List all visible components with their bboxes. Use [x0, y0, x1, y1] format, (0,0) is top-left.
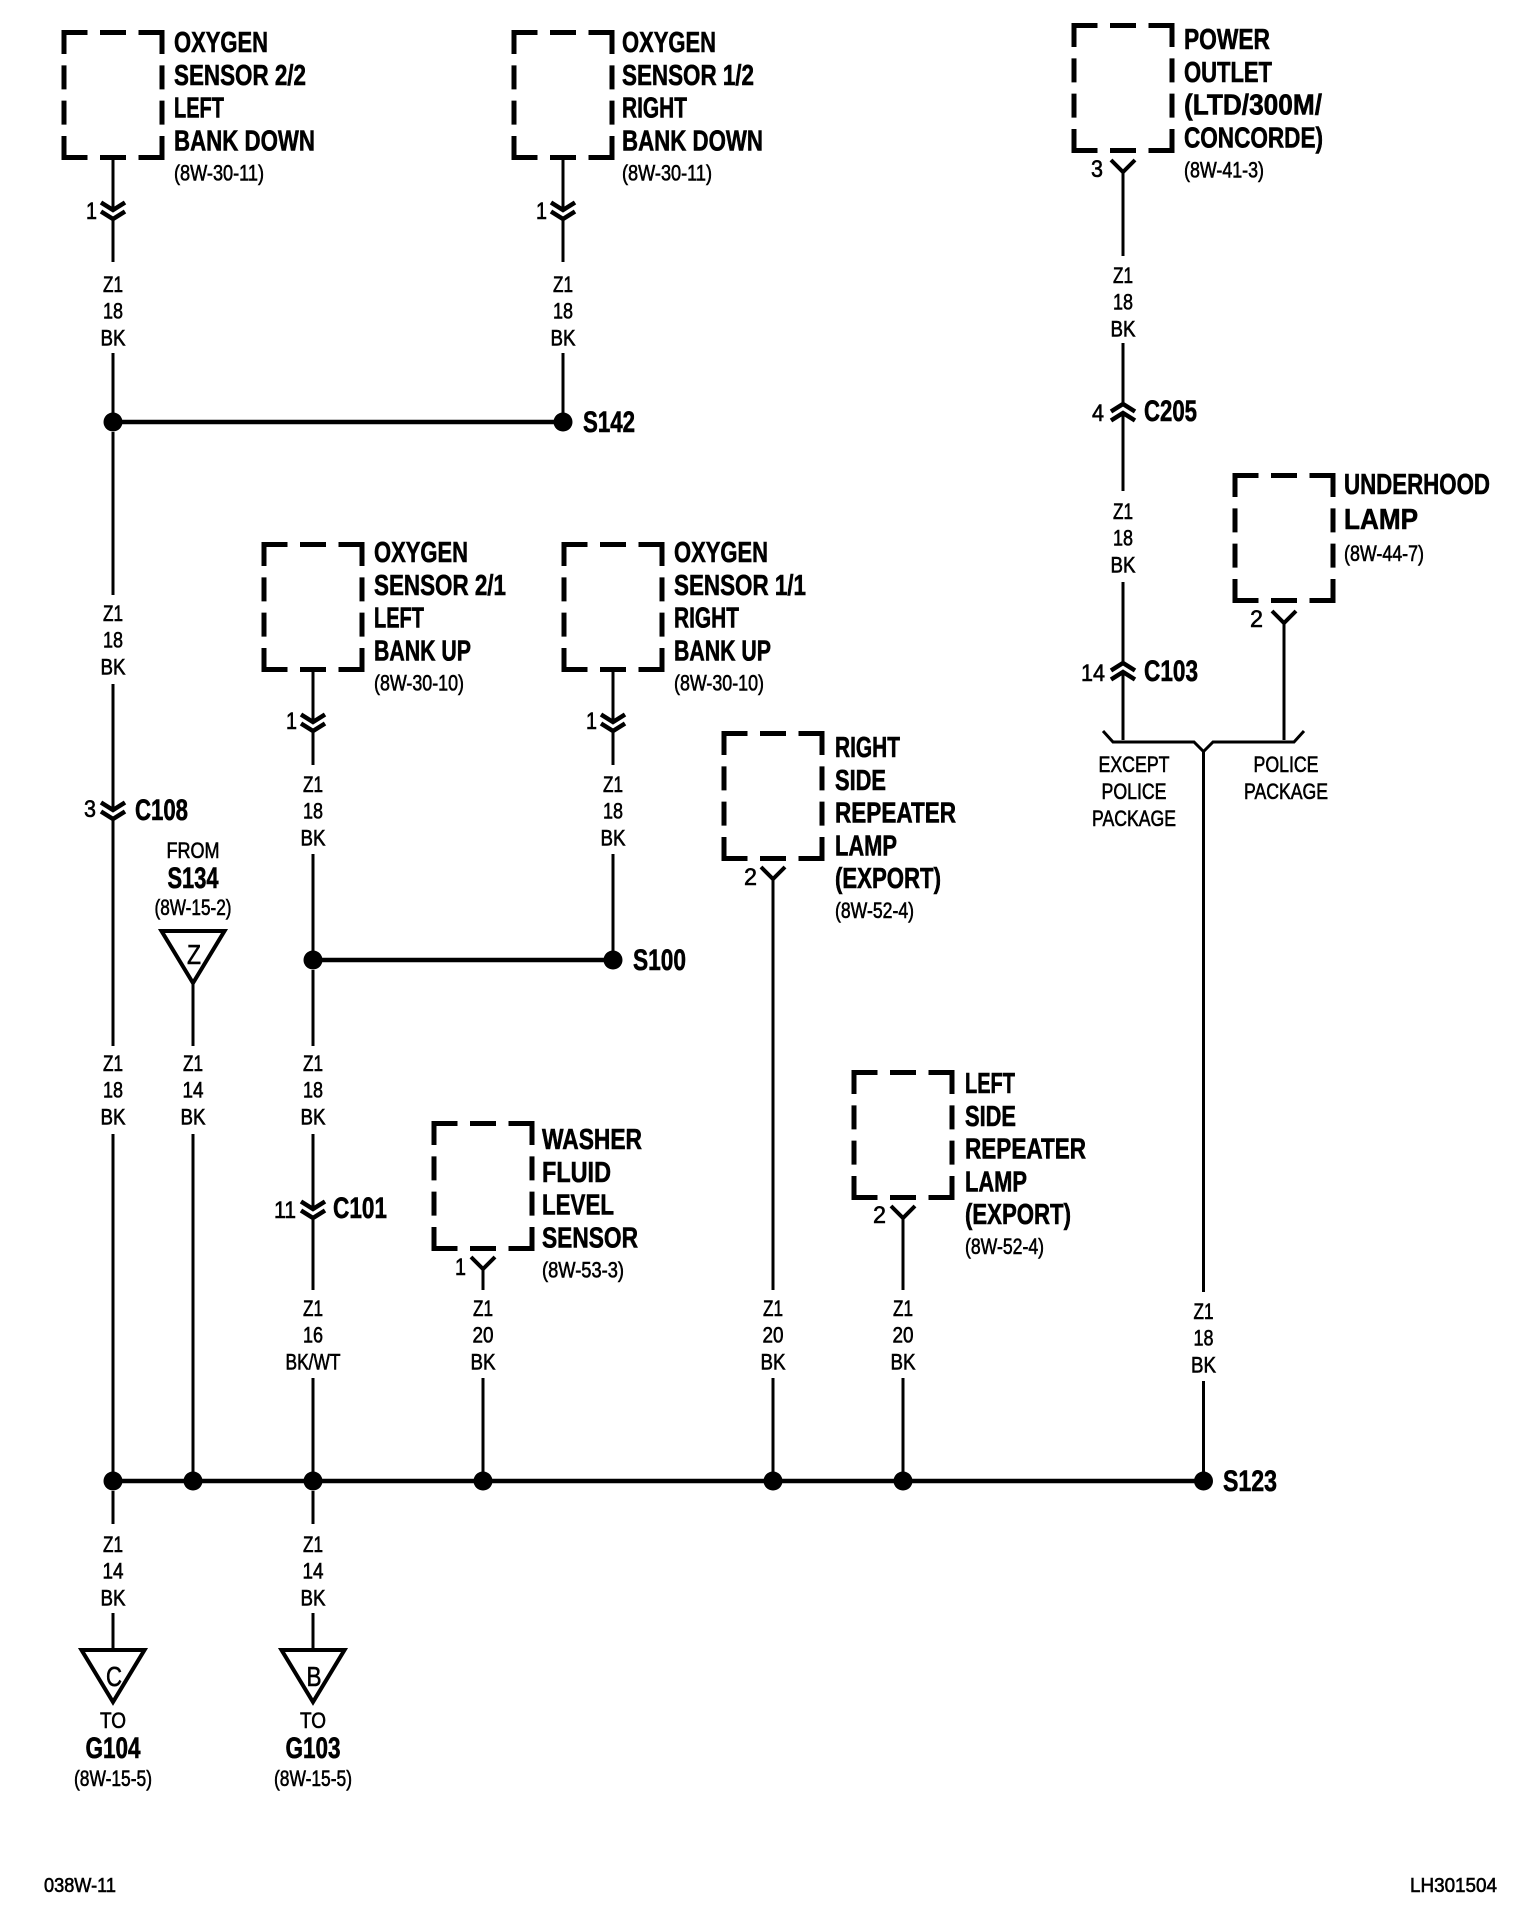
wire Z1 18 BK below C205: [1122, 413, 1125, 491]
svg-text:LH301504: LH301504: [1410, 1875, 1497, 1897]
wire Z1 18 BK below S100 (x=313): [312, 970, 315, 1046]
svg-text:PACKAGE: PACKAGE: [1244, 779, 1328, 804]
svg-text:20: 20: [473, 1323, 494, 1348]
pin V connector at right repeater lamp pin 2: [761, 867, 785, 879]
svg-text:Z1: Z1: [103, 1051, 123, 1076]
pin V connector at left repeater lamp pin 2: [891, 1206, 915, 1218]
svg-text:(8W-30-10): (8W-30-10): [674, 670, 764, 695]
wire Z1 18 BK segment below O2 1/1: [612, 731, 615, 765]
svg-text:(8W-30-11): (8W-30-11): [174, 160, 264, 185]
svg-text:OXYGEN: OXYGEN: [622, 27, 716, 59]
label FROM S134 (8W-15-2): [155, 838, 232, 920]
svg-text:B: B: [307, 1661, 322, 1692]
pin connector chevrons at O2 sensor 1/2 pin 1: [551, 203, 575, 220]
wire label Z1 14 BK (x=193): [181, 1051, 206, 1129]
svg-text:BANK DOWN: BANK DOWN: [174, 125, 315, 157]
svg-text:C103: C103: [1144, 655, 1198, 688]
off-page ground arrow C to G104: [82, 1650, 145, 1702]
svg-text:WASHER: WASHER: [542, 1124, 642, 1156]
svg-text:S100: S100: [633, 944, 686, 977]
svg-text:S123: S123: [1223, 1465, 1277, 1498]
svg-text:Z1: Z1: [183, 1051, 203, 1076]
svg-text:BANK UP: BANK UP: [374, 635, 471, 667]
pin connector chevrons at O2 sensor 2/1 pin 1: [301, 715, 325, 732]
svg-text:BK: BK: [891, 1349, 916, 1374]
svg-text:C: C: [106, 1661, 122, 1692]
label RIGHT SIDE REPEATER LAMP (EXPORT) (8W-52-4): [835, 732, 956, 923]
svg-text:S134: S134: [168, 862, 219, 895]
component POWER OUTLET dashed box: [1072, 23, 1175, 153]
off-page ground arrow B to G103: [282, 1650, 345, 1702]
wire Z1 18 BK from C103 to merge brace: [1122, 672, 1125, 740]
wire Z1 20 BK from washer sensor: [482, 1269, 485, 1290]
wire Z1 18 BK to connector C108: [112, 684, 115, 810]
svg-text:18: 18: [103, 1078, 123, 1103]
wire Z1 18 BK down to S123 dot: [1202, 1381, 1205, 1472]
svg-text:BK: BK: [301, 1585, 326, 1610]
label POWER OUTLET (LTD/300M/CONCORDE) (8W-41-3): [1184, 24, 1323, 182]
svg-text:18: 18: [1113, 290, 1133, 315]
svg-text:OUTLET: OUTLET: [1184, 57, 1272, 89]
svg-text:BK/WT: BK/WT: [286, 1349, 341, 1374]
label TO G104 (8W-15-5): [74, 1708, 152, 1791]
label OXYGEN SENSOR 1/2 RIGHT BANK DOWN (8W-30-11): [622, 27, 763, 185]
wire label Z1 20 BK (x=773): [761, 1296, 786, 1374]
svg-text:Z1: Z1: [1194, 1299, 1214, 1324]
merge brace joining except-police and police-package branches: [1103, 731, 1304, 752]
svg-text:BK: BK: [761, 1349, 786, 1374]
svg-text:BK: BK: [301, 1104, 326, 1129]
svg-text:SENSOR 2/2: SENSOR 2/2: [174, 60, 306, 92]
splice S100 junction dot: [604, 951, 623, 970]
svg-text:BK: BK: [301, 825, 326, 850]
svg-text:038W-11: 038W-11: [44, 1875, 116, 1897]
junction dot x=113 on S123: [104, 1472, 123, 1491]
svg-text:BK: BK: [471, 1349, 496, 1374]
svg-text:1: 1: [286, 708, 297, 735]
svg-text:18: 18: [303, 1078, 323, 1103]
svg-text:POLICE: POLICE: [1254, 752, 1319, 777]
wire Z1 18 BK to connector C103: [1122, 582, 1125, 663]
svg-text:14: 14: [103, 1559, 124, 1584]
wire Z1 14 BK to splice S123: [192, 1134, 195, 1472]
wire Z1 18 BK to connector C205: [1122, 343, 1125, 404]
svg-text:SIDE: SIDE: [835, 765, 886, 797]
pin V connector at underhood lamp pin 2: [1272, 611, 1296, 623]
wire stub from O2 sensor 2/2 pin 1: [112, 160, 115, 210]
svg-text:TO: TO: [300, 1708, 326, 1733]
svg-text:(8W-15-5): (8W-15-5): [274, 1766, 352, 1791]
wire Z1 20 BK from left repeater lamp: [902, 1218, 905, 1290]
svg-text:3: 3: [84, 796, 96, 823]
wire Z1 18 BK below S142 (x=113): [112, 432, 115, 595]
svg-text:SENSOR 2/1: SENSOR 2/1: [374, 570, 506, 602]
svg-text:Z1: Z1: [103, 1532, 123, 1557]
junction dot at S100 left: [304, 951, 323, 970]
svg-text:(8W-44-7): (8W-44-7): [1344, 541, 1424, 566]
pin V connector at power outlet pin 3: [1111, 160, 1135, 172]
off-page arrow Z from S134: [162, 931, 225, 983]
wire Z1 18 BK to connector C101: [312, 1134, 315, 1209]
svg-text:20: 20: [763, 1323, 784, 1348]
wire Z1 18 BK to splice S142 right: [562, 353, 565, 413]
svg-text:S142: S142: [583, 406, 635, 439]
wire Z1 18 BK to splice S100 right: [612, 854, 615, 951]
svg-text:Z1: Z1: [1113, 263, 1133, 288]
wire Z1 18 BK below C108: [112, 819, 115, 1046]
wire Z1 14 BK below S123 (x=113): [112, 1491, 115, 1524]
svg-text:RIGHT: RIGHT: [835, 732, 900, 764]
svg-text:(8W-41-3): (8W-41-3): [1184, 157, 1264, 182]
component RIGHT SIDE REPEATER LAMP dashed box: [722, 731, 825, 861]
svg-text:CONCORDE): CONCORDE): [1184, 122, 1323, 154]
splice S123 junction dot: [1194, 1472, 1213, 1491]
wire label Z1 16 BK/WT: [286, 1296, 341, 1374]
svg-text:LEVEL: LEVEL: [542, 1190, 614, 1222]
svg-text:Z1: Z1: [473, 1296, 493, 1321]
wire label Z1 18 BK (x=1203): [1191, 1299, 1216, 1377]
svg-text:REPEATER: REPEATER: [835, 798, 956, 830]
svg-text:Z1: Z1: [103, 601, 123, 626]
svg-text:SIDE: SIDE: [965, 1101, 1016, 1133]
svg-text:BANK UP: BANK UP: [674, 635, 771, 667]
svg-text:(8W-30-11): (8W-30-11): [622, 160, 712, 185]
wire Z1 18 BK to splice S123: [112, 1134, 115, 1472]
wire Z1 18 BK from brace to splice S123: [1202, 752, 1205, 1293]
svg-text:18: 18: [1113, 526, 1133, 551]
wire label Z1 18 BK (x=313 upper): [301, 772, 326, 850]
svg-text:2: 2: [1250, 606, 1263, 633]
wire label Z1 18 BK (x=113 lower): [101, 1051, 126, 1129]
svg-text:FLUID: FLUID: [542, 1157, 611, 1189]
wire Z1 20 BK from right repeater lamp: [772, 879, 775, 1290]
svg-text:Z1: Z1: [303, 1051, 323, 1076]
svg-text:14: 14: [303, 1559, 324, 1584]
svg-text:Z1: Z1: [893, 1296, 913, 1321]
wire label Z1 18 BK (x=1123 upper): [1111, 263, 1136, 341]
connector C103 chevrons: [1111, 663, 1135, 680]
label OXYGEN SENSOR 1/1 RIGHT BANK UP (8W-30-10): [674, 537, 806, 695]
svg-text:18: 18: [553, 299, 573, 324]
svg-text:BK: BK: [101, 654, 126, 679]
wire S142 bus horizontal: [113, 420, 563, 425]
svg-text:BK: BK: [101, 325, 126, 350]
wire Z1 20 BK to splice S123: [902, 1378, 905, 1472]
wire Z1 14 BK to ground arrow C: [112, 1613, 115, 1650]
svg-text:BK: BK: [181, 1104, 206, 1129]
wire Z1 14 BK below S123 (x=313): [312, 1491, 315, 1524]
pin connector chevrons at O2 sensor 1/1 pin 1: [601, 715, 625, 732]
svg-text:BK: BK: [551, 325, 576, 350]
svg-text:(8W-53-3): (8W-53-3): [542, 1257, 624, 1282]
svg-text:20: 20: [893, 1323, 914, 1348]
wire label Z1 14 BK (x=313 bottom): [301, 1532, 326, 1610]
wire label Z1 18 BK (x=563): [551, 272, 576, 350]
wire Z1 16 BK/WT to splice S123: [312, 1378, 315, 1472]
connector O2SENSOR12 dashed box - OXYGEN SENSOR 1/2 RIGHT BANK DOWN: [512, 30, 615, 160]
svg-text:BK: BK: [101, 1585, 126, 1610]
svg-text:LEFT: LEFT: [174, 93, 224, 125]
svg-text:C108: C108: [135, 794, 188, 827]
svg-text:18: 18: [603, 799, 623, 824]
svg-text:14: 14: [1081, 660, 1105, 687]
svg-text:BK: BK: [1191, 1352, 1216, 1377]
svg-text:LAMP: LAMP: [1344, 504, 1418, 536]
svg-text:Z1: Z1: [763, 1296, 783, 1321]
svg-text:LEFT: LEFT: [374, 603, 424, 635]
svg-text:BK: BK: [1111, 552, 1136, 577]
svg-text:SENSOR 1/2: SENSOR 1/2: [622, 60, 754, 92]
junction dot x=193 on S123: [184, 1472, 203, 1491]
svg-text:OXYGEN: OXYGEN: [374, 537, 468, 569]
connector C101 chevrons: [301, 1202, 325, 1219]
label POLICE PACKAGE: [1244, 752, 1328, 804]
svg-text:18: 18: [103, 299, 123, 324]
connector C108 chevrons: [101, 803, 125, 820]
pin V connector at washer sensor pin 1: [471, 1257, 495, 1269]
wire label Z1 20 BK (x=483): [471, 1296, 496, 1374]
splice S142 junction dot: [554, 413, 573, 432]
svg-text:(8W-30-10): (8W-30-10): [374, 670, 464, 695]
label UNDERHOOD LAMP (8W-44-7): [1344, 469, 1490, 566]
svg-text:4: 4: [1092, 400, 1104, 427]
wire Z1 14 BK to ground arrow B: [312, 1613, 315, 1650]
connector O2SENSOR21 dashed box - OXYGEN SENSOR 2/1 LEFT BANK UP: [262, 542, 365, 672]
svg-text:1: 1: [455, 1254, 466, 1281]
svg-text:1: 1: [586, 708, 597, 735]
junction dot x=313 on S123: [304, 1472, 323, 1491]
svg-text:LAMP: LAMP: [835, 830, 897, 862]
svg-text:LEFT: LEFT: [965, 1068, 1015, 1100]
svg-text:(EXPORT): (EXPORT): [835, 863, 941, 895]
svg-text:C205: C205: [1144, 395, 1197, 428]
svg-text:Z1: Z1: [303, 1532, 323, 1557]
wire Z1 20 BK to splice S123: [772, 1378, 775, 1472]
svg-text:SENSOR: SENSOR: [542, 1222, 638, 1254]
wire Z1 14 BK from S134 arrow: [192, 981, 195, 1046]
component UNDERHOOD LAMP dashed box: [1233, 473, 1336, 603]
junction dot at S142 left: [104, 413, 123, 432]
svg-text:(LTD/300M/: (LTD/300M/: [1184, 90, 1322, 122]
label WASHER FLUID LEVEL SENSOR (8W-53-3): [542, 1124, 642, 1282]
wire label Z1 18 BK (x=113 top): [101, 272, 126, 350]
wire Z1 18 BK from power outlet: [1122, 172, 1125, 256]
svg-text:RIGHT: RIGHT: [674, 603, 739, 635]
wire stub from O2 sensor 1/1 pin 1: [612, 672, 615, 722]
wire label Z1 18 BK (x=313 mid): [301, 1051, 326, 1129]
component LEFT SIDE REPEATER LAMP dashed box: [852, 1070, 955, 1200]
svg-text:C101: C101: [333, 1192, 387, 1225]
svg-text:3: 3: [1091, 156, 1103, 183]
svg-text:(8W-52-4): (8W-52-4): [965, 1234, 1044, 1259]
svg-text:Z1: Z1: [303, 1296, 323, 1321]
svg-text:2: 2: [873, 1202, 886, 1229]
svg-text:Z1: Z1: [303, 772, 323, 797]
wire Z1 18 BK from underhood lamp to merge brace: [1283, 623, 1286, 740]
wire Z1 18 BK to splice S100: [312, 854, 315, 951]
pin connector chevrons at O2 sensor 2/2 pin 1: [101, 203, 125, 220]
svg-text:POWER: POWER: [1184, 24, 1270, 56]
svg-text:18: 18: [1194, 1326, 1214, 1351]
svg-text:RIGHT: RIGHT: [622, 93, 687, 125]
svg-text:BK: BK: [1111, 316, 1136, 341]
svg-text:PACKAGE: PACKAGE: [1092, 806, 1176, 831]
svg-text:1: 1: [86, 198, 97, 225]
wire Z1 18 BK to splice S142: [112, 353, 115, 413]
wire label Z1 18 BK (x=613): [601, 772, 626, 850]
wire S123 ground bus horizontal: [113, 1479, 1204, 1484]
wire Z1 18 BK upper segment (x=563): [562, 219, 565, 262]
svg-text:Z: Z: [187, 939, 201, 970]
wire Z1 20 BK to splice S123: [482, 1378, 485, 1472]
connector C205 chevrons: [1111, 404, 1135, 421]
junction dot x=483 on S123: [474, 1472, 493, 1491]
svg-text:BK: BK: [601, 825, 626, 850]
svg-text:REPEATER: REPEATER: [965, 1134, 1086, 1166]
svg-text:UNDERHOOD: UNDERHOOD: [1344, 469, 1490, 501]
svg-text:OXYGEN: OXYGEN: [174, 27, 268, 59]
wire label Z1 18 BK (x=1123 lower): [1111, 499, 1136, 577]
label EXCEPT POLICE PACKAGE: [1092, 752, 1176, 831]
svg-text:14: 14: [183, 1078, 204, 1103]
wire label Z1 20 BK (x=903): [891, 1296, 916, 1374]
connector O2SENSOR11 dashed box - OXYGEN SENSOR 1/1 RIGHT BANK UP: [562, 542, 665, 672]
svg-text:(8W-15-2): (8W-15-2): [155, 895, 232, 920]
svg-text:18: 18: [103, 628, 123, 653]
svg-text:POLICE: POLICE: [1102, 779, 1167, 804]
svg-text:G104: G104: [86, 1732, 141, 1765]
svg-text:TO: TO: [100, 1708, 126, 1733]
svg-text:1: 1: [536, 198, 547, 225]
svg-text:BK: BK: [101, 1104, 126, 1129]
svg-text:2: 2: [744, 864, 757, 891]
label OXYGEN SENSOR 2/2 LEFT BANK DOWN (8W-30-11): [174, 27, 315, 185]
svg-text:18: 18: [303, 799, 323, 824]
svg-text:G103: G103: [286, 1732, 341, 1765]
svg-text:SENSOR 1/1: SENSOR 1/1: [674, 570, 806, 602]
svg-text:16: 16: [303, 1323, 323, 1348]
wire label Z1 14 BK (x=113 bottom): [101, 1532, 126, 1610]
component WASHER FLUID LEVEL SENSOR dashed box: [432, 1121, 535, 1251]
svg-text:11: 11: [274, 1197, 296, 1224]
svg-text:(EXPORT): (EXPORT): [965, 1199, 1071, 1231]
svg-text:LAMP: LAMP: [965, 1166, 1027, 1198]
connector O2SENSOR22 dashed box - OXYGEN SENSOR 2/2 LEFT BANK DOWN: [62, 30, 165, 160]
svg-text:Z1: Z1: [1113, 499, 1133, 524]
wire label Z1 18 BK (x=113 mid): [101, 601, 126, 679]
svg-text:OXYGEN: OXYGEN: [674, 537, 768, 569]
svg-text:FROM: FROM: [167, 838, 220, 863]
junction dot x=903 on S123: [894, 1472, 913, 1491]
svg-text:BANK DOWN: BANK DOWN: [622, 125, 763, 157]
wire Z1 18 BK segment below O2 2/1: [312, 731, 315, 765]
wire S100 bus horizontal: [313, 958, 613, 963]
junction dot x=773 on S123: [764, 1472, 783, 1491]
label LEFT SIDE REPEATER LAMP (EXPORT) (8W-52-4): [965, 1068, 1086, 1259]
svg-text:Z1: Z1: [103, 272, 123, 297]
svg-text:EXCEPT: EXCEPT: [1099, 752, 1170, 777]
svg-text:(8W-15-5): (8W-15-5): [74, 1766, 152, 1791]
svg-text:Z1: Z1: [603, 772, 623, 797]
label OXYGEN SENSOR 2/1 LEFT BANK UP (8W-30-10): [374, 537, 506, 695]
wire Z1 18 BK upper segment (x=113): [112, 219, 115, 262]
wire stub from O2 sensor 1/2 pin 1: [562, 160, 565, 210]
svg-text:Z1: Z1: [553, 272, 573, 297]
label TO G103 (8W-15-5): [274, 1708, 352, 1791]
wire Z1 16 BK/WT below C101: [312, 1218, 315, 1290]
svg-text:(8W-52-4): (8W-52-4): [835, 898, 914, 923]
wire stub from O2 sensor 2/1 pin 1: [312, 672, 315, 722]
